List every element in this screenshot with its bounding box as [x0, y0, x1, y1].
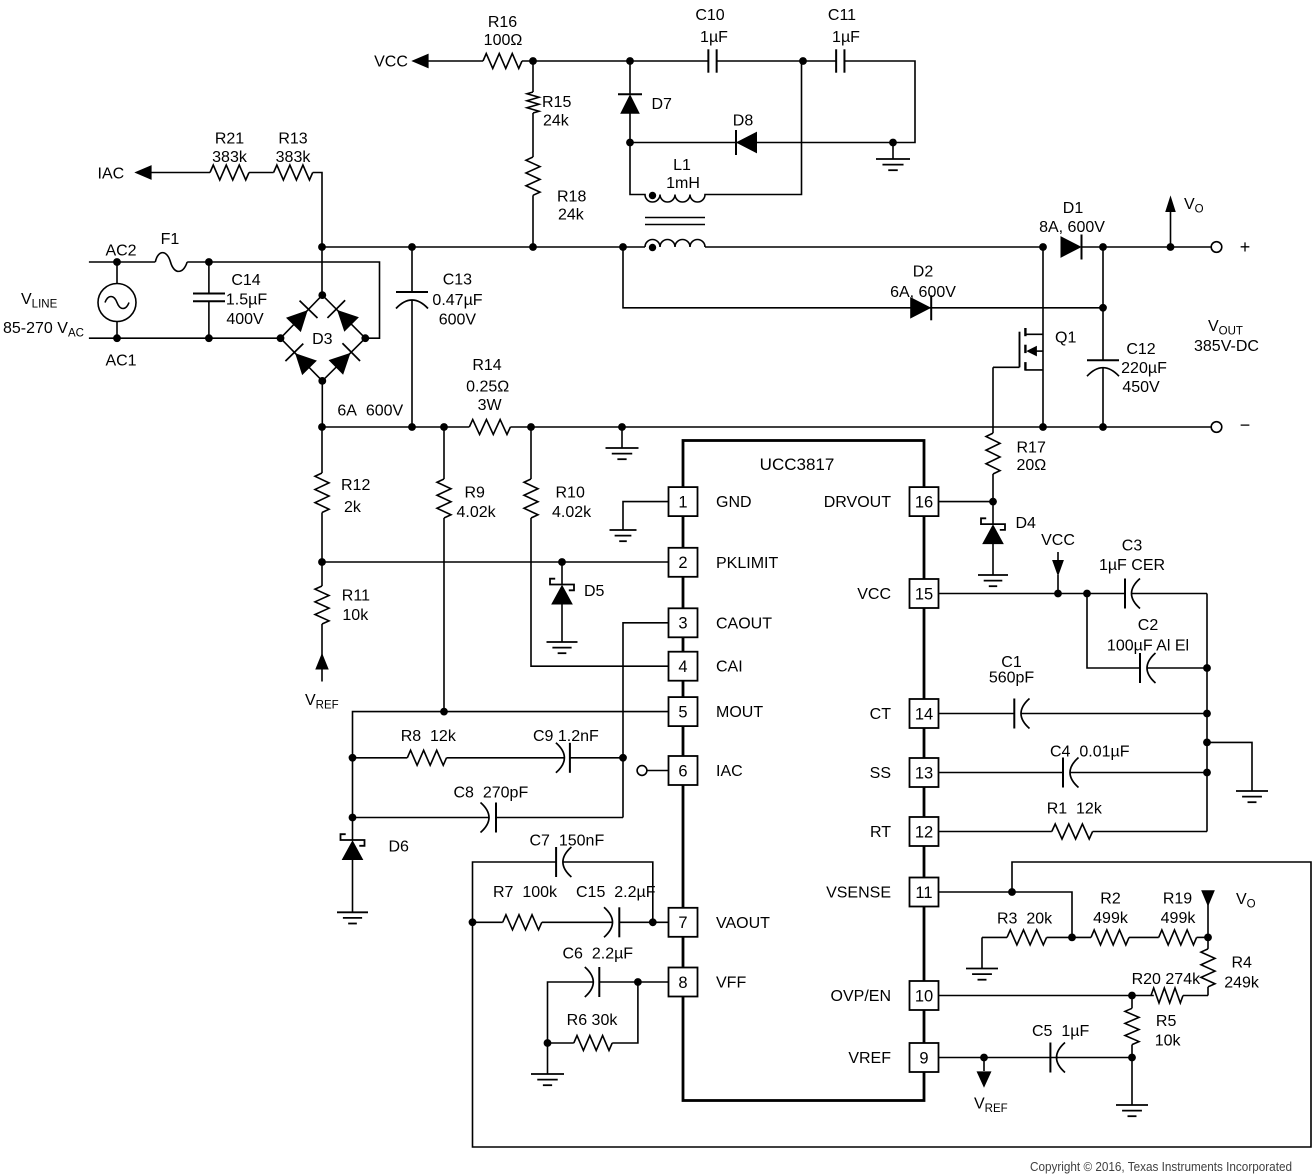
junction D1 anode / Q1 drain node [1039, 243, 1047, 251]
pin 8 VFF [669, 968, 747, 997]
junction R15 top [529, 57, 537, 65]
pin 12 RT [870, 817, 939, 846]
junction VCC-arrow node [1054, 590, 1062, 598]
junction C2-right node [1203, 664, 1211, 672]
junction rail-C13 node [408, 243, 416, 251]
svg-text:1: 1 [678, 493, 687, 511]
svg-text:560pF: 560pF [989, 670, 1035, 687]
svg-text:14: 14 [915, 705, 933, 723]
svg-text:4.02k: 4.02k [552, 504, 592, 521]
svg-text:PKLIMIT: PKLIMIT [716, 555, 778, 572]
svg-text:10k: 10k [1155, 1033, 1182, 1050]
svg-text:12: 12 [915, 823, 933, 841]
bridge rectifier D3 [277, 291, 370, 385]
diode D5 (zener) [550, 562, 605, 604]
transistor Q1 (MOSFET) [993, 247, 1076, 427]
svg-text:D8: D8 [733, 113, 754, 130]
junction Q1 source node [1039, 423, 1047, 431]
wire D1 cathode to + terminal [1082, 246, 1212, 248]
svg-text:R20 274k: R20 274k [1132, 971, 1201, 988]
svg-text:1µF CER: 1µF CER [1099, 557, 1165, 574]
ground (VFF) [531, 1043, 564, 1085]
svg-text:5: 5 [678, 703, 687, 721]
diode D4 (zener) [981, 502, 1036, 544]
label copyright [1030, 1159, 1292, 1174]
svg-text:CAOUT: CAOUT [716, 615, 772, 632]
junction rail-R13 node [318, 243, 326, 251]
net VCC arrow (pin 15) [1041, 532, 1075, 594]
capacitor C5 [1032, 1023, 1132, 1073]
capacitor C2 [1087, 594, 1207, 684]
resistor R19 [1159, 891, 1208, 945]
terminal IAC (pin 6 open circle) [637, 766, 668, 776]
svg-text:1.5µF: 1.5µF [226, 292, 267, 309]
svg-text:11: 11 [915, 884, 932, 902]
wire AC1 line [89, 337, 281, 339]
wire R21-R13 [249, 172, 274, 174]
wire pin11 VSENSE [939, 892, 1073, 937]
junction C5-R5 node [1128, 1054, 1136, 1062]
net Vo arrow (feedback) [1202, 891, 1256, 938]
junction SS-right node [1203, 769, 1211, 777]
svg-text:R19: R19 [1163, 891, 1192, 908]
wire PKLIMIT line [322, 561, 669, 563]
pin 10 OVP/EN [831, 981, 939, 1010]
junction VSENSE-loop junction [1008, 888, 1016, 896]
junction rail-R18 node [529, 243, 537, 251]
wire pin10 OVP/EN [939, 995, 1154, 997]
capacitor C3 [1099, 538, 1207, 609]
wire pin15 VCC line [939, 593, 1126, 595]
svg-text:R15: R15 [542, 94, 571, 111]
svg-text:0.47µF: 0.47µF [432, 292, 482, 309]
capacitor C14 [193, 262, 267, 338]
junction AC1 node [113, 334, 121, 342]
svg-text:3: 3 [678, 615, 687, 633]
resistor R1 [939, 801, 1208, 840]
junction return-ground node [618, 423, 626, 431]
ground (C5) [1116, 1058, 1148, 1117]
ground (pin 1) [610, 530, 637, 541]
svg-text:10: 10 [915, 987, 933, 1005]
svg-text:8: 8 [678, 974, 687, 992]
svg-text:385V-DC: 385V-DC [1194, 338, 1259, 355]
svg-text:1µF: 1µF [700, 29, 728, 46]
svg-text:−: − [1240, 415, 1251, 435]
resistor R4 [1201, 937, 1260, 995]
pin 9 VREF [848, 1043, 938, 1072]
svg-text:C8 270pF: C8 270pF [454, 785, 529, 802]
pin 5 MOUT [669, 697, 764, 726]
svg-text:D6: D6 [389, 839, 410, 856]
resistor R9 [437, 427, 497, 712]
svg-text:Q1: Q1 [1055, 330, 1076, 347]
wire return rail left [322, 426, 469, 428]
pin 6 IAC [669, 756, 743, 785]
svg-text:D5: D5 [584, 583, 605, 600]
resistor R5 [1125, 996, 1181, 1058]
net Vo arrow (output) [1166, 196, 1204, 247]
wire main rail (L1 to D1) [705, 246, 1043, 248]
capacitor C15 [576, 884, 656, 937]
svg-text:VSENSE: VSENSE [826, 885, 891, 902]
junction D7 top [626, 57, 634, 65]
junction MOUT-R9 node [440, 708, 448, 716]
capacitor C1 [989, 654, 1207, 729]
svg-text:D7: D7 [652, 96, 673, 113]
svg-text:0.25Ω: 0.25Ω [466, 379, 509, 396]
svg-text:AC1: AC1 [105, 353, 136, 370]
svg-text:16: 16 [915, 493, 933, 511]
wire F1 to bridge right [187, 262, 379, 338]
svg-text:C10: C10 [695, 7, 724, 24]
pin 7 VAOUT [669, 908, 771, 937]
pin 14 CT [870, 699, 939, 728]
resistor R8 [353, 728, 565, 765]
net VCC arrow (top left) [374, 54, 483, 71]
diode D6 (zener) [341, 818, 410, 860]
junction MOUT-C8-D6 node [349, 814, 357, 822]
svg-text:499k: 499k [1093, 910, 1129, 927]
capacitor C7 [473, 833, 653, 923]
svg-text:F1: F1 [161, 231, 180, 248]
svg-text:R5: R5 [1156, 1013, 1177, 1030]
resistor R13 [274, 131, 313, 181]
net VREF arrow (pin 9) [974, 1058, 1008, 1116]
capacitor C4 [1050, 744, 1207, 788]
diode D7 [618, 61, 672, 143]
svg-text:R4: R4 [1232, 955, 1253, 972]
wire pin13 SS [939, 772, 1064, 774]
svg-text:R14: R14 [472, 357, 501, 374]
svg-text:R13: R13 [278, 131, 307, 148]
svg-text:8A, 600V: 8A, 600V [1039, 219, 1105, 236]
terminal + output [1211, 237, 1250, 257]
wire right bypass vertical [1206, 594, 1208, 832]
svg-text:100Ω: 100Ω [484, 32, 523, 49]
pin 13 SS [870, 758, 939, 787]
svg-text:9: 9 [919, 1049, 928, 1067]
junction CAOUT-C9 node [619, 754, 627, 762]
svg-text:2k: 2k [344, 499, 362, 516]
svg-text:D4: D4 [1016, 515, 1037, 532]
svg-text:499k: 499k [1161, 910, 1197, 927]
svg-text:VFF: VFF [716, 975, 746, 992]
svg-text:MOUT: MOUT [716, 704, 763, 721]
junction C14 top node [205, 258, 213, 266]
svg-text:C13: C13 [443, 272, 472, 289]
wire CAOUT net [623, 623, 669, 818]
wire C10 to C11 [717, 60, 836, 62]
svg-text:20Ω: 20Ω [1017, 457, 1047, 474]
svg-text:R11: R11 [342, 588, 370, 605]
svg-text:OVP/EN: OVP/EN [831, 988, 891, 1005]
wire VAOUT line [619, 921, 668, 923]
svg-text:24k: 24k [543, 113, 570, 130]
svg-text:RT: RT [870, 824, 891, 841]
svg-text:IAC: IAC [98, 166, 125, 183]
ground (timing) [1236, 791, 1268, 802]
net VREF arrow (R11) [305, 654, 339, 711]
svg-text:GND: GND [716, 494, 752, 511]
capacitor C6 [548, 946, 638, 1044]
junction Vo node [1167, 243, 1175, 251]
svg-text:DRVOUT: DRVOUT [824, 494, 891, 511]
svg-text:3W: 3W [478, 397, 503, 414]
svg-text:R12: R12 [341, 477, 370, 494]
label VOUT [1194, 318, 1259, 355]
svg-text:R8 12k: R8 12k [401, 728, 457, 745]
junction D5 node [558, 558, 566, 566]
capacitor C11 [828, 7, 860, 73]
junction C7-C15 node [649, 918, 657, 926]
junction R6-ground node [544, 1039, 552, 1047]
junction VREF-arrow node [980, 1054, 988, 1062]
resistor R7 [473, 884, 613, 930]
wire VSENSE feedback loop [473, 862, 1312, 1147]
capacitor C9 [533, 728, 623, 773]
svg-text:VCC: VCC [374, 54, 408, 71]
junction VSENSE-R3-R2 node [1068, 934, 1076, 942]
svg-text:4.02k: 4.02k [457, 504, 497, 521]
svg-text:VCC: VCC [857, 586, 891, 603]
wire R13 to bridge top [313, 173, 322, 296]
svg-text:Copyright © 2016, Texas Instru: Copyright © 2016, Texas Instruments Inco… [1030, 1159, 1292, 1174]
junction D7-L1-D8 node [626, 139, 634, 147]
wire D8 line [630, 142, 893, 144]
junction C14 bottom node [205, 334, 213, 342]
svg-text:D3: D3 [312, 331, 333, 348]
svg-text:6: 6 [678, 762, 687, 780]
wire VFF line [638, 981, 669, 983]
wire return rail right [510, 426, 1211, 428]
op-amp U1 UCC3817 body [683, 441, 924, 1101]
svg-text:R21: R21 [215, 131, 244, 148]
wire MOUT net [353, 712, 669, 818]
junction C12 bottom node [1099, 423, 1107, 431]
capacitor C10 [695, 7, 728, 73]
junction return-R12 node [318, 423, 326, 431]
svg-text:15: 15 [915, 585, 933, 603]
svg-text:C6 2.2µF: C6 2.2µF [563, 946, 634, 963]
svg-text:220µF: 220µF [1121, 360, 1167, 377]
svg-text:383k: 383k [276, 149, 312, 166]
pin 2 PKLIMIT [669, 548, 779, 577]
svg-text:100µF Al El: 100µF Al El [1107, 638, 1189, 655]
svg-text:R10: R10 [556, 485, 585, 502]
wire ground branch [1207, 742, 1252, 791]
wire main rail (rectifier + to L1) [322, 246, 645, 248]
junction R19-R4 node [1204, 934, 1212, 942]
junction C10-C11 node [799, 57, 807, 65]
junction DRVOUT node [989, 498, 997, 506]
svg-text:2: 2 [678, 554, 687, 572]
svg-text:6A 600V: 6A 600V [337, 403, 403, 420]
svg-text:VREF: VREF [848, 1050, 891, 1067]
svg-text:1mH: 1mH [666, 175, 700, 192]
label AC2 [105, 243, 136, 260]
ground (R3) [966, 937, 998, 979]
pin 4 CAI [669, 652, 743, 681]
svg-text:24k: 24k [558, 207, 585, 224]
junction VCC-C2 node [1083, 590, 1091, 598]
svg-text:D1: D1 [1063, 200, 1084, 217]
wire R2-R19 [1129, 936, 1159, 938]
svg-text:C1: C1 [1001, 654, 1022, 671]
junction D1-C12 node [1099, 243, 1107, 251]
pin 1 GND [669, 487, 752, 516]
svg-text:450V: 450V [1122, 379, 1160, 396]
resistor R15 [527, 61, 571, 157]
svg-text:UCC3817: UCC3817 [760, 455, 835, 474]
junction VSENSE-loop node (R7 left) [469, 918, 477, 926]
junction return-R10 node [527, 423, 535, 431]
resistor R17 [986, 367, 1046, 501]
svg-text:IAC: IAC [716, 763, 743, 780]
resistor R11 [315, 562, 370, 682]
svg-text:AC2: AC2 [105, 243, 136, 260]
net IAC arrow [98, 166, 211, 183]
resistor R21 [210, 131, 249, 181]
capacitor C8 [353, 785, 624, 833]
svg-text:10k: 10k [342, 607, 369, 624]
resistor R3 [982, 911, 1072, 945]
svg-text:C11: C11 [828, 7, 856, 24]
pin 15 VCC [857, 579, 938, 608]
ground (D6) [337, 860, 368, 924]
svg-text:CT: CT [870, 706, 892, 723]
svg-text:C15 2.2µF: C15 2.2µF [576, 884, 656, 901]
svg-text:+: + [1240, 237, 1251, 257]
svg-text:1µF: 1µF [832, 29, 860, 46]
capacitor C13 [396, 247, 483, 427]
svg-text:VAOUT: VAOUT [716, 915, 770, 932]
wire bridge bottom to return rail [321, 381, 323, 427]
pin 16 DRVOUT [824, 487, 939, 516]
wire D2 line [623, 247, 1103, 308]
wire pin16 DRVOUT [939, 501, 994, 503]
resistor R12 [315, 427, 370, 562]
resistor R18 [526, 157, 586, 247]
svg-text:C7 150nF: C7 150nF [530, 833, 605, 850]
svg-text:R1 12k: R1 12k [1047, 801, 1103, 818]
junction D2-C12 node [1099, 304, 1107, 312]
resistor R2 [1072, 891, 1129, 945]
svg-text:C3: C3 [1122, 538, 1143, 555]
inductor L1 (boost transformer) [630, 61, 802, 251]
svg-text:R6 30k: R6 30k [567, 1012, 619, 1029]
ground (return rail) [606, 427, 639, 459]
junction return-C13 node [408, 423, 416, 431]
svg-text:7: 7 [678, 914, 687, 932]
svg-text:R16: R16 [488, 14, 517, 31]
svg-text:SS: SS [870, 765, 891, 782]
junction AC2 node [113, 258, 121, 266]
svg-text:C5 1µF: C5 1µF [1032, 1023, 1089, 1040]
junction return-R9 node [440, 423, 448, 431]
svg-text:R7 100k: R7 100k [493, 884, 558, 901]
wire pin1 to ground [623, 502, 669, 530]
junction PKLIMIT node [318, 558, 326, 566]
svg-text:CAI: CAI [716, 659, 743, 676]
junction snubber ground node [889, 139, 897, 147]
ground (D4) [978, 544, 1008, 587]
svg-text:13: 13 [915, 764, 933, 782]
resistor R14 [466, 357, 510, 435]
svg-text:C12: C12 [1126, 341, 1155, 358]
svg-text:C4 0.01µF: C4 0.01µF [1050, 744, 1130, 761]
resistor R10 [524, 427, 669, 666]
fuse F1 [155, 231, 187, 271]
capacitor C12 [1087, 247, 1167, 427]
svg-text:R17: R17 [1017, 440, 1046, 457]
wire VCC-R16 node to C10 [522, 60, 708, 62]
label D3 rating [337, 403, 403, 420]
diode D1 [1039, 200, 1105, 260]
wire C11 to ground corner [845, 61, 916, 143]
junction ground-branch node [1203, 739, 1211, 747]
svg-text:R2: R2 [1100, 891, 1121, 908]
junction VFF-R6 node [634, 978, 642, 986]
svg-text:6A, 600V: 6A, 600V [890, 284, 956, 301]
svg-text:C14: C14 [231, 272, 260, 289]
svg-text:249k: 249k [1224, 975, 1260, 992]
wire pin14 CT [939, 713, 1015, 715]
pin 11 VSENSE [826, 878, 938, 907]
svg-text:R18: R18 [557, 189, 586, 206]
svg-text:C9 1.2nF: C9 1.2nF [533, 728, 599, 745]
svg-text:400V: 400V [226, 311, 264, 328]
source VLINE (AC source) [3, 262, 136, 340]
svg-text:VCC: VCC [1041, 532, 1075, 549]
label AC1 [105, 353, 136, 370]
terminal - output [1211, 415, 1250, 435]
svg-text:600V: 600V [439, 312, 477, 329]
svg-text:C2: C2 [1138, 617, 1159, 634]
resistor R20 [1132, 971, 1208, 1003]
diode D2 [890, 264, 956, 321]
resistor R6 [548, 982, 638, 1051]
ground (D5) [547, 604, 578, 653]
svg-text:R3 20k: R3 20k [997, 911, 1053, 928]
pin 3 CAOUT [669, 608, 773, 637]
junction MOUT-R8 node [349, 754, 357, 762]
resistor R16 [483, 14, 522, 69]
junction OVP-R5 node [1128, 992, 1136, 1000]
wire pin9 VREF [939, 1057, 1059, 1059]
svg-text:4: 4 [678, 658, 687, 676]
svg-text:L1: L1 [673, 157, 691, 174]
junction CT-right node [1203, 710, 1211, 718]
wire AC2 line [89, 261, 155, 263]
svg-text:383k: 383k [212, 149, 248, 166]
diode D8 [733, 113, 757, 156]
ground (snubber) [876, 143, 910, 171]
junction rail-D2 node [619, 243, 627, 251]
svg-text:R9: R9 [465, 485, 486, 502]
svg-text:D2: D2 [913, 264, 934, 281]
